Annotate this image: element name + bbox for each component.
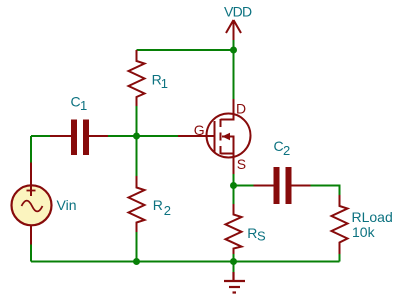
wire: gate node down to R2 bbox=[136, 136, 138, 176]
wire: C1 left to left rail bbox=[31, 135, 50, 137]
resistor R2 bbox=[129, 176, 145, 232]
svg-text:VDD: VDD bbox=[224, 4, 252, 20]
wire: C1 right to gate node bbox=[108, 135, 137, 137]
node: bottom rail junction at ground bbox=[230, 258, 237, 265]
wire: RLoad bottom to bottom rail bbox=[339, 254, 341, 262]
wire: S node down to RS bbox=[233, 186, 235, 205]
wire: R2 bottom to bottom rail bbox=[136, 232, 138, 262]
wire: R1 bottom to gate node bbox=[136, 106, 138, 136]
svg-text:G: G bbox=[194, 122, 205, 138]
wire: Vin bottom to bottom rail bbox=[30, 245, 32, 262]
capacitor C1 bbox=[50, 120, 108, 156]
svg-text:Vin: Vin bbox=[57, 197, 77, 213]
wire: drain wire from VDD node down to MOSFET bbox=[233, 50, 235, 99]
svg-text:D: D bbox=[236, 101, 246, 117]
svg-text:S: S bbox=[237, 156, 246, 172]
ground bbox=[224, 272, 245, 293]
node: gate junction bbox=[133, 133, 140, 140]
svg-text:2: 2 bbox=[283, 143, 290, 158]
wire: top rail from R1 top to VDD node bbox=[137, 49, 234, 51]
wire: MOSFET source to S node bbox=[233, 174, 235, 186]
capacitor C2 bbox=[254, 167, 311, 204]
svg-text:S: S bbox=[257, 229, 266, 244]
svg-text:RLoad: RLoad bbox=[352, 209, 393, 225]
wire: S node to C2 left bbox=[234, 185, 254, 187]
label RS bbox=[247, 225, 266, 244]
wire: left rail down to Vin bbox=[30, 136, 32, 163]
resistor RS bbox=[226, 204, 242, 254]
label C2 bbox=[274, 138, 291, 158]
wire: gate wire from gate node to MOSFET bbox=[137, 135, 179, 137]
wire: C2 right to right rail corner bbox=[311, 186, 340, 196]
node: VDD junction bbox=[230, 47, 237, 54]
svg-text:1: 1 bbox=[80, 98, 87, 113]
wire: RS bottom to bottom rail bbox=[233, 254, 235, 262]
svg-text:R: R bbox=[153, 197, 163, 213]
svg-text:1: 1 bbox=[161, 76, 168, 91]
source V1 Vin bbox=[12, 163, 52, 245]
resistor R1 bbox=[129, 50, 145, 106]
svg-text:2: 2 bbox=[164, 203, 171, 218]
label R1 bbox=[152, 71, 168, 91]
svg-text:R: R bbox=[247, 225, 257, 241]
svg-text:10k: 10k bbox=[352, 224, 376, 240]
resistor RLoad bbox=[332, 195, 348, 254]
label C1 bbox=[71, 94, 88, 114]
node: bottom rail junction at R2 bbox=[133, 258, 140, 265]
wire: VDD stem below arrow bbox=[233, 40, 235, 50]
node: source junction bbox=[230, 182, 237, 189]
wire: ground stem bbox=[233, 262, 235, 273]
transistor Q1 n-channel MOSFET bbox=[178, 99, 251, 174]
wire: bottom rail bbox=[31, 261, 340, 263]
power symbol VDD arrow bbox=[226, 20, 241, 40]
label R2 bbox=[153, 197, 171, 218]
